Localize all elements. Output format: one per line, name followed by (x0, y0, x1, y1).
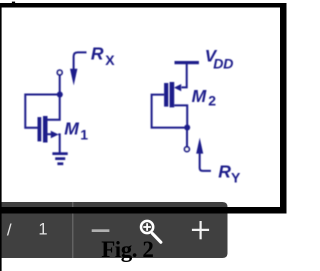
svg-text:M: M (64, 118, 79, 138)
M1 source arrow (51, 131, 59, 138)
svg-text:X: X (105, 52, 115, 68)
figure border left (0, 3, 2, 271)
svg-text:DD: DD (213, 56, 233, 72)
node drain M1 junction dot (57, 92, 63, 98)
transistor M1 channel bar (43, 116, 48, 143)
svg-text:1: 1 (80, 127, 88, 143)
svg-text:Y: Y (231, 169, 241, 185)
figure border notch (12, 2, 15, 4)
svg-text:2: 2 (208, 93, 216, 109)
R_Y probe lead (200, 150, 211, 171)
label R_Y (218, 161, 241, 185)
wire terminal to drain node (59, 75, 61, 94)
transistor M2 gate bar (164, 83, 168, 107)
label V_DD (205, 47, 234, 72)
label M1 (64, 118, 88, 142)
svg-text:R: R (218, 161, 231, 181)
ground (52, 152, 67, 165)
wire M2 source lead (174, 105, 187, 127)
node source M2 junction dot (184, 125, 190, 131)
VDD rail bar (175, 61, 199, 64)
label M2 (192, 86, 217, 109)
transistor M2 channel bar (170, 82, 175, 107)
svg-text:R: R (91, 43, 104, 63)
toolbar background (0, 202, 228, 258)
figure border top (0, 3, 287, 8)
R_Y probe arrowhead (196, 138, 203, 154)
figure border right (280, 3, 287, 214)
wire M1 drain lead (48, 97, 60, 120)
svg-text:1: 1 (38, 221, 47, 239)
R_X probe arrowhead (70, 69, 77, 86)
wire source node to terminal (186, 128, 188, 147)
svg-text:M: M (192, 86, 207, 106)
toolbar separator (72, 202, 73, 258)
wire VDD to M2 drain (182, 64, 187, 87)
wire M1 source lead (48, 133, 52, 135)
figure border bottom (0, 207, 287, 214)
R_X probe lead (74, 52, 87, 71)
wire M1 source to ground (58, 134, 59, 152)
label R_X (91, 43, 115, 68)
toolbar minus icon (92, 229, 110, 232)
transistor M1 gate bar (38, 117, 42, 141)
node Y open terminal (185, 147, 190, 152)
wire M2 gate loop (152, 95, 188, 128)
node X open terminal (57, 70, 62, 75)
wire drain node to gate loop (25, 95, 60, 128)
toolbar plus icon (192, 221, 209, 239)
M2 drain arrow (174, 84, 181, 91)
toolbar magnifier icon (141, 221, 161, 242)
svg-text:Fig. 2: Fig. 2 (101, 237, 153, 262)
svg-text:/: / (7, 220, 12, 239)
